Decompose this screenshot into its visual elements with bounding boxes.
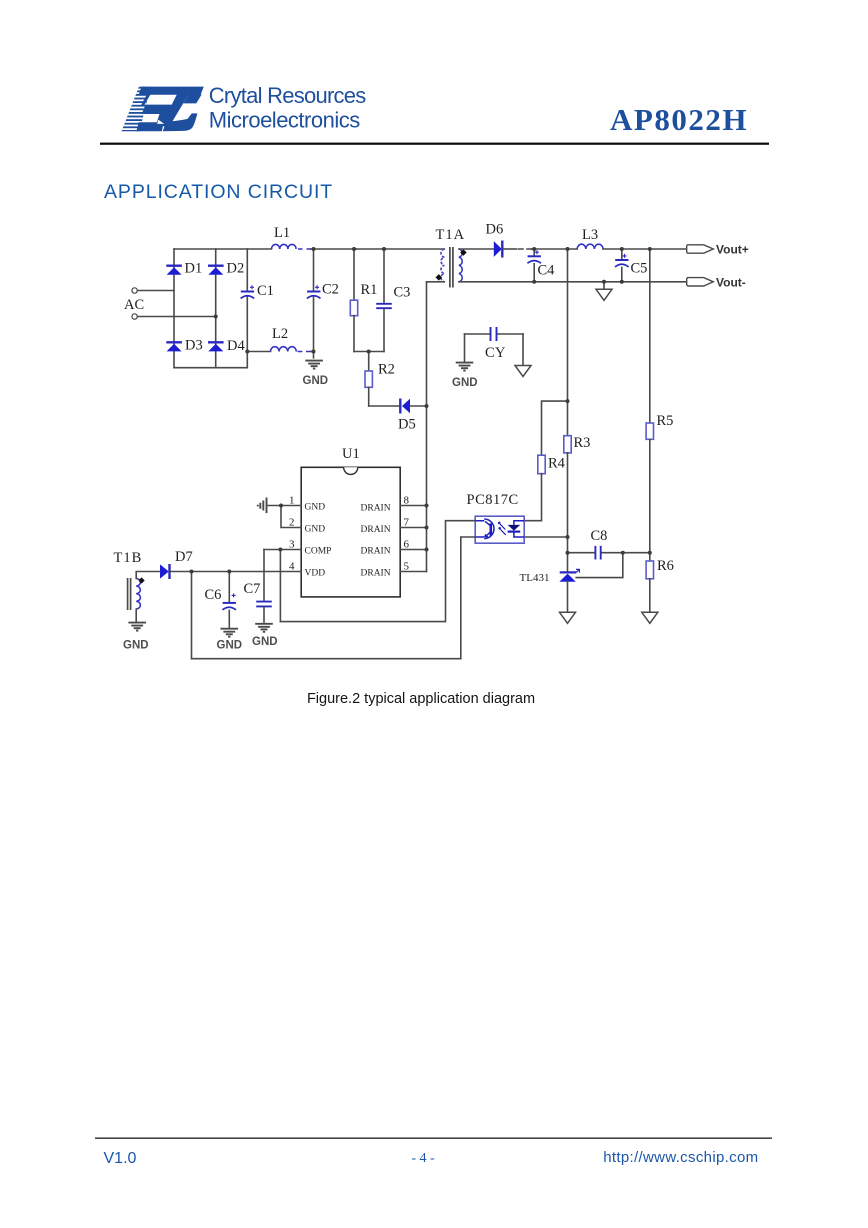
svg-text:APPLICATION CIRCUIT: APPLICATION CIRCUIT	[104, 181, 333, 203]
SCHEMATIC-MID	[350, 222, 686, 572]
node D5 cathode junction	[425, 404, 429, 408]
svg-text:R4: R4	[548, 456, 566, 472]
ground GND (C2 / L2)	[305, 361, 323, 369]
svg-text:Crytal Resources: Crytal Resources	[209, 83, 366, 108]
node TL431 cathode junction	[566, 551, 570, 555]
wire R5 vertical top	[649, 249, 651, 423]
svg-text:AP8022H: AP8022H	[610, 102, 748, 137]
svg-text:D5: D5	[398, 417, 416, 433]
wire R3 to TL431 node	[567, 453, 569, 572]
node opto cathode junction	[566, 535, 570, 539]
wire pin4 VDD rail	[192, 571, 302, 573]
wire R4 to optocoupler	[524, 474, 541, 521]
svg-text:Microelectronics: Microelectronics	[209, 107, 360, 132]
T1B winding	[136, 579, 140, 609]
wire bridge left vertical	[173, 249, 175, 368]
svg-text:Vout-: Vout-	[716, 276, 746, 290]
svg-text:C6: C6	[205, 587, 222, 603]
ground stem (output rail)	[603, 282, 605, 290]
svg-text:C4: C4	[538, 263, 556, 279]
diode D2	[208, 266, 224, 275]
terminal Vout-	[687, 278, 714, 286]
wire COMP drop	[279, 550, 281, 622]
node D7 output junction	[190, 570, 194, 574]
wire C1 vertical	[246, 249, 248, 290]
AC input terminals	[132, 288, 137, 293]
company logo SC mark	[116, 87, 204, 132]
inductor L1	[272, 244, 297, 249]
ground (output, open triangle)	[596, 289, 612, 300]
svg-text:GND: GND	[305, 525, 326, 535]
svg-text:C3: C3	[394, 285, 411, 301]
svg-text:GND: GND	[303, 375, 329, 387]
diode D3	[166, 342, 182, 351]
wire L2 rail	[247, 351, 270, 353]
wire COMP rail (to opto collector side)	[280, 521, 475, 622]
diode D1	[166, 266, 182, 275]
svg-text:GND: GND	[252, 636, 278, 648]
svg-text:R2: R2	[378, 362, 395, 378]
shunt regulator TL431	[559, 569, 579, 581]
T1A core	[450, 247, 453, 288]
ground GND (T1B)	[128, 623, 146, 631]
wire pin3 COMP	[264, 549, 301, 551]
node pin6 drain junction	[425, 548, 429, 552]
wire CY left leg	[464, 334, 466, 362]
wire bridge bottom	[174, 367, 247, 369]
SCHEMATIC-RIGHT	[467, 227, 749, 623]
node R6 top junction	[648, 551, 652, 555]
inductor L2	[271, 347, 297, 352]
wire top rail L3 to Vout+	[603, 248, 687, 250]
node output ground junction	[602, 280, 606, 284]
capacitor C6	[228, 572, 230, 602]
T1A primary winding (dashed)	[441, 249, 444, 282]
node C5 bottom junction	[620, 280, 624, 284]
node C8-ref junction	[621, 551, 625, 555]
svg-text:CY: CY	[485, 345, 506, 361]
wire pin7 stub	[400, 527, 426, 529]
svg-text:D7: D7	[175, 549, 193, 565]
wire pin8 stub	[400, 505, 426, 507]
capacitor C2	[313, 249, 315, 290]
svg-text:R5: R5	[657, 413, 674, 429]
wire top rail C4 to L3	[534, 248, 577, 250]
ground (CY right, open triangle)	[515, 366, 531, 377]
wire top rail left	[174, 248, 272, 250]
capacitor C4	[533, 249, 535, 255]
node L2-C2 junction	[312, 350, 316, 354]
ground (R6, open triangle)	[642, 612, 658, 623]
svg-text:TL431: TL431	[520, 572, 550, 584]
resistor R4	[538, 455, 545, 474]
svg-text:GND: GND	[123, 640, 149, 652]
svg-text:C1: C1	[257, 283, 274, 299]
node R2 top junction	[367, 350, 371, 354]
capacitor C8	[595, 546, 600, 560]
node C3 top junction	[382, 247, 386, 251]
SCHEMATIC-LEFT	[124, 225, 356, 387]
T1A secondary winding	[459, 249, 462, 282]
wire AC lower	[138, 316, 216, 318]
svg-text:GND: GND	[217, 640, 243, 652]
wire top rail to C2	[311, 248, 356, 250]
capacitor C1	[241, 285, 255, 298]
wire D7 junction to VDD rail	[171, 571, 192, 573]
svg-text:T1A: T1A	[436, 227, 466, 243]
ground GND (C6)	[221, 629, 239, 637]
FOOTER	[95, 1138, 772, 1168]
svg-text:C2: C2	[322, 282, 339, 298]
svg-text:D2: D2	[227, 261, 245, 277]
diode D5	[400, 399, 410, 414]
wire R1-C3 bottom	[354, 351, 384, 353]
U1 notch	[344, 467, 358, 474]
capacitor CY	[465, 333, 490, 335]
wire R6 to ground	[649, 579, 651, 613]
svg-text:L1: L1	[274, 225, 290, 241]
svg-text:D4: D4	[227, 338, 245, 354]
svg-text:C7: C7	[244, 581, 261, 597]
svg-text:R3: R3	[574, 435, 591, 451]
svg-text:Vout+: Vout+	[716, 243, 749, 257]
svg-text:D3: D3	[185, 338, 203, 354]
svg-text:DRAIN: DRAIN	[361, 547, 391, 557]
svg-text:DRAIN: DRAIN	[361, 569, 391, 579]
svg-text:- 4 -: - 4 -	[411, 1151, 435, 1166]
node C4 bottom junction	[532, 280, 536, 284]
svg-text:T1B: T1B	[114, 550, 143, 566]
resistor R6	[646, 561, 653, 579]
svg-text:COMP: COMP	[305, 547, 332, 557]
header rule	[100, 143, 769, 145]
wire feedback vertical (Vout+ to R3)	[567, 249, 569, 436]
wire pin5 stub	[400, 571, 426, 573]
capacitor C7	[263, 550, 265, 601]
wire bridge mid vertical	[215, 249, 217, 368]
node pin8 drain junction	[425, 504, 429, 508]
svg-text:http://www.cschip.com: http://www.cschip.com	[603, 1149, 758, 1166]
svg-text:L2: L2	[272, 326, 288, 342]
svg-text:R1: R1	[361, 282, 378, 298]
terminal Vout+	[687, 245, 714, 253]
node pin7 drain junction	[425, 526, 429, 530]
node AC-bridge junction	[214, 315, 218, 319]
node C4 top junction	[532, 247, 536, 251]
ground GND (C7)	[255, 624, 273, 632]
inductor L3	[577, 244, 603, 249]
svg-text:C8: C8	[591, 528, 608, 544]
svg-text:GND: GND	[452, 377, 478, 389]
wire bottom rail (to opto emitter side)	[192, 537, 476, 659]
node C6 top junction	[227, 570, 231, 574]
wire secondary bottom rail	[459, 281, 687, 283]
svg-text:GND: GND	[305, 503, 326, 513]
wire optocoupler cathode to node	[524, 536, 567, 538]
diode D4	[208, 342, 224, 351]
SCHEMATIC-BOTTOM	[114, 446, 476, 659]
svg-text:DRAIN: DRAIN	[361, 504, 391, 514]
wire C8 rail	[568, 552, 595, 554]
T1B polarity dot	[138, 577, 144, 583]
wire T1B bottom to ground	[135, 609, 137, 622]
wire R2 to D5	[369, 405, 400, 407]
chassis ground (pin1)	[258, 498, 267, 514]
node C5 top junction	[620, 247, 624, 251]
wire R5 to R6	[649, 439, 651, 561]
resistor R5	[646, 423, 653, 439]
svg-text:DRAIN: DRAIN	[361, 525, 391, 535]
wire top rail to transformer	[356, 248, 444, 250]
capacitor C5	[621, 249, 623, 259]
node pin1 ground junction	[279, 504, 283, 508]
diode D7	[160, 564, 170, 579]
svg-text:R6: R6	[657, 558, 674, 574]
ground (TL431, open triangle)	[560, 612, 576, 623]
wire AC upper	[138, 290, 175, 292]
svg-text:D1: D1	[185, 261, 203, 277]
ground GND (CY left)	[456, 363, 474, 371]
wire primary bottom	[427, 281, 445, 283]
node R3-R4 junction	[566, 399, 570, 403]
wire TL431 anode to ground	[567, 582, 569, 613]
svg-text:AC: AC	[124, 297, 144, 313]
wire pin6 stub	[400, 549, 426, 551]
resistor R2	[368, 352, 370, 372]
wire pin1-pin2 strap	[281, 506, 301, 528]
wire TL431 ref branch	[576, 553, 623, 578]
svg-text:V1.0: V1.0	[104, 1150, 137, 1167]
wire R4 branch	[542, 401, 568, 455]
wire pin1 stub	[268, 505, 302, 507]
node feedback top junction	[566, 247, 570, 251]
svg-text:D6: D6	[486, 222, 504, 238]
node R1 top junction	[352, 247, 356, 251]
svg-text:U1: U1	[342, 446, 360, 462]
node L1-C2 junction	[312, 247, 316, 251]
wire secondary top to D6	[459, 248, 494, 250]
T1A polarity dots	[460, 249, 467, 256]
svg-text:VDD: VDD	[305, 569, 326, 579]
svg-text:L3: L3	[582, 227, 598, 243]
wire aux supply drop	[191, 572, 193, 659]
svg-text:C5: C5	[631, 261, 648, 277]
node COMP junction	[278, 548, 282, 552]
diode D6	[494, 241, 503, 258]
wire primary vertical to drains	[426, 282, 428, 572]
svg-text:Figure.2 typical application d: Figure.2 typical application diagram	[307, 691, 535, 707]
node R5 top junction	[648, 247, 652, 251]
wire CY right leg	[522, 334, 524, 366]
node C1-L2 junction	[245, 350, 249, 354]
capacitor C3	[383, 249, 385, 303]
wire T1B top to D7	[136, 572, 160, 579]
svg-text:PC817C: PC817C	[467, 492, 519, 508]
HEADER	[100, 83, 769, 707]
T1B core	[128, 578, 131, 610]
footer rule	[95, 1138, 772, 1139]
resistor R3	[564, 436, 571, 453]
wire D6 to C4 (with dashes)	[504, 248, 517, 250]
resistor R1	[353, 249, 355, 300]
